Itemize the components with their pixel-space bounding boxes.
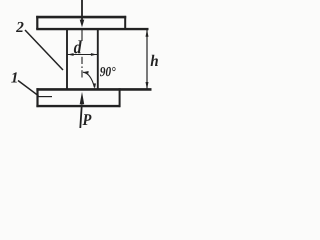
leader line for label 2 xyxy=(25,30,63,70)
label d xyxy=(74,40,82,53)
top plate top edge xyxy=(36,16,126,19)
angle arc bottom arrowhead xyxy=(93,83,96,89)
label P xyxy=(82,114,91,125)
specimen axis dot xyxy=(81,66,83,68)
dimension d line xyxy=(68,54,98,56)
bottom plate right edge xyxy=(119,88,121,107)
force P line xyxy=(80,105,82,129)
label 1 xyxy=(11,72,17,82)
top force arrowhead xyxy=(80,20,85,28)
label 90 degrees xyxy=(100,67,116,76)
bottom plate top edge with h extension line xyxy=(36,88,151,91)
label 2 xyxy=(16,22,23,32)
dimension h bottom arrowhead xyxy=(146,82,149,89)
label h xyxy=(151,55,158,66)
specimen left edge xyxy=(66,29,68,89)
angle arc left arrowhead xyxy=(83,71,89,74)
top plate left edge xyxy=(36,16,38,29)
dimension d left arrowhead xyxy=(67,53,73,56)
top plate bottom edge with h extension line xyxy=(36,28,148,30)
bottom plate bottom edge xyxy=(36,105,120,107)
90 degree angle arc xyxy=(83,72,94,87)
dimension d right arrowhead xyxy=(91,53,97,56)
specimen right edge xyxy=(97,29,99,89)
force P arrowhead xyxy=(80,92,85,104)
top plate right edge xyxy=(124,16,126,29)
top force line xyxy=(81,0,83,21)
leader line for label 1 xyxy=(18,81,39,96)
bottom plate left edge xyxy=(36,88,38,107)
dimension h top arrowhead xyxy=(146,29,149,36)
specimen axis centerline upper segment xyxy=(81,30,83,42)
leader tail for label 1 xyxy=(38,96,53,98)
specimen axis dash xyxy=(81,57,83,64)
dimension h line xyxy=(146,30,148,90)
specimen axis dash 2 xyxy=(81,70,83,77)
